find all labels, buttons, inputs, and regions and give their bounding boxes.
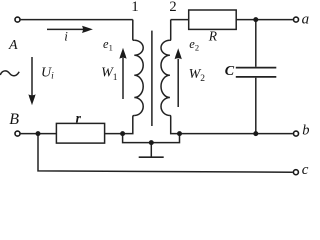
svg-text:a: a xyxy=(302,12,309,28)
svg-text:i: i xyxy=(64,29,68,44)
svg-text:A: A xyxy=(8,38,18,53)
svg-text:b: b xyxy=(302,123,309,139)
svg-text:R: R xyxy=(208,28,218,43)
svg-text:c: c xyxy=(302,162,309,177)
svg-text:2: 2 xyxy=(169,0,176,15)
svg-text:B: B xyxy=(9,111,19,128)
svg-text:r: r xyxy=(76,110,82,125)
svg-text:C: C xyxy=(225,64,235,79)
svg-text:1: 1 xyxy=(131,0,139,15)
